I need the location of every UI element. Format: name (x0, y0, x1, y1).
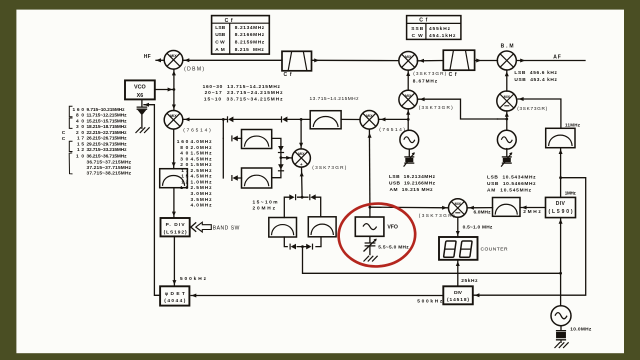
mixer M5 (399, 51, 418, 70)
box phase detector 4044 (160, 286, 189, 305)
wire 11MHz filter to M5c (518, 99, 561, 128)
wire M5c bottom node (506, 111, 508, 130)
svg-text:LSB 19.2134MHz: LSB 19.2134MHz (389, 174, 436, 180)
svg-text:CW: CW (412, 33, 423, 39)
bandpass filter C 500kHz (160, 169, 188, 188)
band offset list numbers (177, 139, 189, 191)
oscillator 10MHz reference (551, 306, 571, 326)
box VFO (355, 217, 384, 236)
wire 1MHz node to DIV14518 input (474, 178, 586, 296)
diode filterE input (231, 175, 238, 181)
wire branch node to filterD diode (223, 119, 241, 138)
svg-text:32.715~33.215MHz: 32.715~33.215MHz (87, 147, 128, 153)
svg-text:2.0MHz: 2.0MHz (191, 145, 213, 151)
mixer M4 (449, 199, 468, 218)
svg-text:454.1kHz: 454.1kHz (429, 33, 456, 39)
svg-text:(3SK73GR): (3SK73GR) (413, 71, 446, 76)
svg-text:DIV: DIV (454, 290, 463, 296)
arrowhead Cf2 to BM (476, 59, 481, 63)
svg-text:+: + (300, 162, 303, 167)
svg-text:MIX: MIX (170, 54, 177, 58)
svg-text:1.5MHz: 1.5MHz (191, 162, 213, 168)
wire HF output (156, 59, 164, 61)
svg-text:500kHz: 500kHz (417, 299, 443, 305)
diode row y119 left (227, 116, 234, 122)
diode chain upper vertical (278, 146, 284, 153)
svg-text:4.0MHz: 4.0MHz (191, 203, 213, 209)
svg-text:1.5MHz: 1.5MHz (191, 151, 213, 157)
arrowhead into DBM right (184, 58, 189, 62)
wire 2MHz DIVL590 to comb filter (520, 207, 545, 209)
wire DIVL590 top to 1MHz node (560, 178, 562, 198)
wire M1 down to filterC (173, 129, 175, 169)
bandpass filter D (242, 130, 272, 149)
wire M3 bottom to harmonic diode node (301, 167, 304, 197)
svg-text:(3SK73GR): (3SK73GR) (419, 105, 453, 110)
wire M4 to counter (457, 217, 459, 237)
svg-text:17: 17 (77, 136, 84, 142)
arrowhead into M5c right (519, 97, 524, 101)
arrowhead feedback into varactor (144, 103, 149, 107)
wire VCO output (155, 89, 174, 91)
svg-text:MIX: MIX (504, 95, 511, 99)
wire M5b to M5 (407, 70, 409, 90)
band switch hollow arrow (196, 222, 212, 232)
svg-text:(76514): (76514) (379, 127, 405, 133)
svg-text:160: 160 (177, 139, 189, 145)
svg-text:LSB: LSB (215, 25, 226, 31)
wire Cf2 to BM (475, 60, 498, 62)
svg-text:USB 453.4 kHz: USB 453.4 kHz (514, 77, 557, 83)
wire VFO box to varcap (369, 236, 371, 254)
wire filterC to PDIV (173, 188, 175, 218)
svg-text:2.5MHz: 2.5MHz (191, 185, 213, 191)
svg-text:USB: USB (215, 32, 226, 38)
wire diode chain to filterE right (272, 158, 281, 178)
svg-text:37.715~38.215MHz: 37.715~38.215MHz (87, 171, 132, 177)
svg-text:MIX: MIX (455, 202, 462, 206)
svg-text:1.0MHz: 1.0MHz (191, 179, 213, 185)
mixer BM balanced modulator (497, 51, 516, 70)
wire node to osc10 (498, 118, 507, 120)
bandpass filter K 6MHz (493, 198, 521, 217)
arrowhead into counter bottom (456, 261, 460, 266)
svg-text:15: 15 (181, 174, 188, 180)
arrowhead into DIV L590 bottom (559, 219, 563, 224)
svg-text:22.215~22.715MHz: 22.215~22.715MHz (87, 130, 128, 136)
wire harmonic diode row bottom (284, 237, 321, 247)
wire AF (517, 60, 586, 62)
7-segment digit right (460, 241, 473, 257)
arrowhead into M5 bottom (406, 71, 410, 76)
svg-text:P. DIV: P. DIV (166, 222, 186, 228)
wire phase det to DIV14518 500kHz (191, 295, 443, 297)
arrowhead into M5b right (420, 97, 425, 101)
arrowhead into M3 left (286, 156, 291, 160)
arrowhead into 11MHz filter bottom (559, 149, 563, 154)
box frequency counter (439, 237, 478, 260)
svg-text:MIX: MIX (170, 114, 177, 118)
svg-text:26.215~26.715MHz: 26.215~26.715MHz (87, 136, 128, 142)
crystal 10MHz (556, 331, 566, 340)
svg-text:6.0MHz: 6.0MHz (474, 209, 492, 215)
svg-text:AM 10.545MHz: AM 10.545MHz (487, 188, 532, 194)
wire 10MHz osc to DIVL590 (560, 218, 562, 306)
wire M1 to diode row (183, 118, 310, 120)
wire M5 to Cf2 (417, 60, 443, 62)
wire osc10 to trimmer (506, 149, 508, 157)
red annotation circle around VFO (337, 201, 418, 269)
arrowhead VCO out (168, 88, 173, 92)
svg-text:18.215~18.715MHz: 18.215~18.715MHz (87, 124, 128, 130)
wire varactor to VCO (141, 100, 143, 129)
wire row node down to M3 top (300, 119, 302, 148)
wire M2 top node (379, 118, 409, 120)
VCO range list numbers (73, 107, 85, 160)
arrowhead into M1 top (172, 105, 176, 110)
box VCO X6 (125, 80, 155, 99)
wire counter to DIV14518 25kHz (457, 260, 459, 286)
svg-text:B.M: B.M (501, 44, 514, 50)
svg-text:SSB: SSB (411, 26, 424, 32)
wire osc19 top (407, 119, 409, 130)
arrowhead into filterC top (172, 162, 176, 167)
svg-text:LSB 10.5434MHz: LSB 10.5434MHz (487, 174, 536, 180)
table Cf carrier frequencies (212, 16, 270, 55)
svg-text:AF: AF (553, 55, 561, 61)
svg-text:C: C (62, 130, 66, 136)
bandpass filter G 20MHz (308, 217, 336, 237)
diode filterD input (231, 135, 238, 141)
mixer M5c (497, 91, 517, 111)
wire Cf1 to M5 (312, 59, 399, 61)
wire osc19 to trimmer (408, 149, 410, 156)
svg-text:12: 12 (77, 147, 84, 153)
wire osc19 node up to M5b (407, 109, 409, 119)
wire comb filter to M4 (467, 207, 492, 209)
svg-text:36.215~36.715MHz: 36.215~36.715MHz (87, 154, 128, 160)
arrowhead into M4 left (442, 206, 447, 210)
svg-text:11MHz: 11MHz (565, 123, 581, 128)
oscillator 19MHz carrier (400, 130, 419, 149)
svg-text:(3SK73GR): (3SK73GR) (517, 106, 547, 111)
arrowhead into comb filter right (522, 206, 527, 210)
svg-text:AM 19.215 MHz: AM 19.215 MHz (390, 187, 434, 193)
arrowhead into M3 top (299, 143, 303, 148)
svg-text:11.715~12.215MHz: 11.715~12.215MHz (87, 113, 128, 119)
svg-text:MIX: MIX (405, 94, 412, 98)
wire harmonic diode row top (284, 197, 320, 217)
bandpass filter E (242, 168, 272, 188)
svg-text:1MHz: 1MHz (565, 190, 577, 195)
diode chain lower vertical (278, 164, 284, 171)
VCO list brackets (69, 106, 72, 174)
arrowhead into phase det right (191, 294, 196, 298)
wire branch node to filterE diode (223, 138, 241, 178)
arrowhead into M2 right (381, 117, 386, 121)
trimmer crystal 19MHz (404, 152, 415, 166)
ground 10MHz crystal (555, 342, 569, 348)
variable capacitor VFO (364, 239, 377, 252)
wire PDIV to phase det (173, 237, 175, 287)
wire BM bottom to M5c top (506, 70, 508, 91)
svg-text:160~30 13.715~14.215MHz: 160~30 13.715~14.215MHz (203, 84, 281, 90)
svg-text:8.215 MHz: 8.215 MHz (235, 47, 265, 53)
wire M2 bottom to VFO node (368, 129, 371, 207)
svg-text:USB 19.2166MHz: USB 19.2166MHz (389, 181, 436, 187)
svg-text:455kHz: 455kHz (429, 26, 451, 32)
svg-text:15: 15 (77, 142, 84, 148)
mixer M2 (360, 111, 379, 130)
svg-text:37.215~37.715MHz: 37.215~37.715MHz (87, 165, 132, 171)
svg-text:15~10m: 15~10m (253, 200, 278, 206)
svg-text:8.2159MHz: 8.2159MHz (235, 40, 265, 46)
arrowhead into counter top (456, 231, 460, 236)
arrowhead into DIV 14518 right (474, 293, 479, 297)
svg-text:AM: AM (215, 47, 225, 53)
svg-text:CW: CW (215, 40, 225, 46)
svg-text:(76514): (76514) (183, 127, 211, 133)
arrowhead into DBM bottom (172, 71, 176, 76)
varactor diode VCO (137, 107, 148, 115)
wire VCO node to M1 (173, 90, 175, 111)
svg-text:10.0MHz: 10.0MHz (570, 327, 592, 333)
svg-text:MIX: MIX (405, 55, 412, 59)
arrowhead into BM bottom (505, 71, 509, 76)
arrowhead into M4 right (469, 206, 474, 210)
mixer DBM (164, 51, 183, 70)
arrowhead HF out (156, 58, 161, 62)
diode harmonic bottom-right (306, 244, 313, 250)
svg-text:160: 160 (73, 107, 85, 113)
ground VFO (364, 256, 378, 262)
wire PLL feedback from phase det to varactor (144, 105, 160, 296)
svg-text:VCO: VCO (134, 85, 146, 91)
box DIV L590 (546, 197, 576, 217)
wire M5b right from BM carrier node (418, 99, 498, 119)
svg-text:8.2134MHz: 8.2134MHz (235, 25, 265, 31)
svg-text:5.5~5.0 MHz: 5.5~5.0 MHz (378, 244, 409, 250)
wire 1MHz node to 11MHz filter (560, 148, 562, 178)
svg-text:USB 10.5466MHz: USB 10.5466MHz (487, 181, 536, 187)
svg-text:25kHz: 25kHz (461, 278, 478, 284)
svg-text:(LS192): (LS192) (164, 229, 187, 235)
svg-text:9.715~10.215MHz: 9.715~10.215MHz (87, 107, 126, 113)
arrowhead into M3 bottom (300, 172, 304, 177)
svg-text:4.5MHz: 4.5MHz (191, 174, 213, 180)
arrowhead into PDIV top (172, 212, 176, 217)
svg-text:36.715~37.215MHz: 36.715~37.215MHz (87, 159, 132, 165)
wire Cf1 to DBM (183, 59, 282, 61)
svg-text:C: C (62, 136, 66, 142)
arrowhead into M5c bottom (505, 112, 509, 117)
wire filterD right to diode chain (272, 138, 281, 157)
svg-text:(3SK73GR): (3SK73GR) (312, 165, 346, 170)
svg-text:15.215~15.715MHz: 15.215~15.715MHz (87, 118, 128, 124)
band switch arrow chevron (191, 222, 196, 231)
7-segment digit left (444, 241, 457, 257)
svg-text:3.0MHz: 3.0MHz (191, 191, 213, 197)
bandpass filter F 20MHz (269, 218, 297, 238)
svg-text:MIX: MIX (298, 152, 305, 156)
svg-text:29.215~29.715MHz: 29.215~29.715MHz (87, 142, 128, 148)
mixer M5b (399, 90, 418, 109)
wire harmonic node to 10MHz bus (303, 247, 561, 274)
bandpass filter H 11MHz (546, 128, 575, 147)
svg-text:8.67MHz: 8.67MHz (413, 78, 438, 83)
arrowhead into M5 right (419, 59, 424, 63)
arrowhead into phase det top (172, 280, 176, 285)
arrowhead AF out (520, 59, 525, 63)
svg-text:3.5MHz: 3.5MHz (191, 197, 213, 203)
svg-text:X6: X6 (137, 93, 144, 99)
box P.DIV LS192 (161, 218, 190, 236)
diode harmonic top-left (289, 194, 296, 200)
svg-text:COUNTER: COUNTER (481, 246, 508, 252)
bandpass filter A 14MHz (310, 111, 341, 129)
box DIV 14518 (443, 286, 473, 304)
ground varactor (136, 127, 150, 133)
svg-text:DIV: DIV (556, 201, 566, 207)
svg-text:4.5MHz: 4.5MHz (191, 156, 213, 162)
diode row y119 right (281, 116, 288, 122)
mixer M3 (292, 149, 310, 167)
diode harmonic bottom-left (290, 244, 297, 250)
svg-text:12: 12 (181, 179, 188, 185)
svg-text:15~10 33.715~34.215MHz: 15~10 33.715~34.215MHz (204, 96, 283, 102)
wire VFO node to M4 (370, 206, 448, 209)
svg-text:0.5~1.0 MHz: 0.5~1.0 MHz (463, 224, 493, 230)
svg-text:HF: HF (144, 54, 151, 60)
band offset list values (191, 139, 213, 209)
svg-text:13.715~14.215MHz: 13.715~14.215MHz (310, 96, 360, 102)
svg-text:8.2166MHz: 8.2166MHz (235, 32, 265, 38)
oscillator 10.5MHz carrier (497, 130, 516, 149)
arrowhead into M1 right (185, 117, 190, 121)
arrowhead after Cf1 (314, 58, 319, 62)
wire VFO node to VFO box (369, 207, 371, 217)
wire 10MHz osc to crystal (560, 326, 562, 343)
wire VCO node to DBM (173, 69, 175, 89)
trimmer crystal 10.5MHz (501, 152, 512, 166)
wire diode chain node to M3 (281, 157, 292, 159)
svg-text:2.5MHz: 2.5MHz (191, 168, 213, 174)
svg-text:MIX: MIX (366, 114, 373, 118)
crystal filter Cf2 (443, 50, 474, 70)
svg-text:BAND SW: BAND SW (213, 225, 240, 231)
crystal filter Cf1 (282, 51, 312, 71)
svg-text:(14518): (14518) (447, 297, 469, 303)
VCO range list frequencies (87, 107, 132, 177)
svg-text:(3SK73GR): (3SK73GR) (419, 213, 455, 218)
arrowhead into M5b bottom (406, 110, 410, 115)
svg-text:4.0MHz: 4.0MHz (191, 139, 213, 145)
table Cf IF frequencies (407, 16, 461, 40)
svg-text:17: 17 (181, 168, 188, 174)
arrowhead into M2 bottom (368, 133, 372, 138)
svg-text:VFO: VFO (387, 224, 398, 230)
diode harmonic top-right (309, 194, 316, 200)
svg-text:20~17 23.715~24.215MHz: 20~17 23.715~24.215MHz (205, 90, 283, 96)
svg-text:LSB 456.6 kHz: LSB 456.6 kHz (514, 70, 557, 76)
mixer M1 (164, 111, 183, 130)
wire filterA to M2 (341, 118, 360, 120)
